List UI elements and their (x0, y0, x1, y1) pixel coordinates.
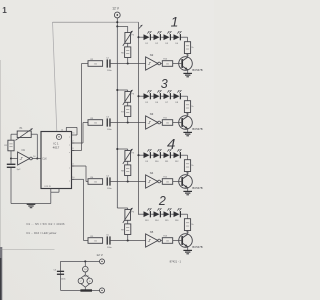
svg-text:o: o (69, 136, 70, 138)
wire resistor to line (127, 235, 129, 241)
svg-text:1: 1 (171, 13, 179, 29)
resistor R17 (184, 219, 193, 231)
potentiometer P1 (15, 128, 32, 140)
node channel numeral 2 (158, 194, 166, 208)
svg-text:D2: D2 (155, 43, 157, 45)
svg-text:1k: 1k (191, 106, 193, 108)
svg-text:D4: D4 (175, 43, 177, 45)
wire IC2 pin 14 branch (84, 261, 86, 266)
svg-text:BC547B: BC547B (192, 127, 202, 131)
wire supply pins to ground (81, 284, 90, 290)
wire RC node to inverter (111, 121, 146, 123)
terminal 0V bottom (100, 288, 105, 293)
svg-text:D11: D11 (165, 161, 168, 163)
svg-text:N1 ... N5 = 5/6 IC2 = 40106: N1 ... N5 = 5/6 IC2 = 40106 (27, 222, 66, 226)
resistor R11 (162, 118, 172, 126)
svg-text:N5: N5 (150, 230, 154, 234)
svg-text:1k: 1k (191, 47, 193, 49)
node IC2 label (84, 275, 89, 278)
svg-text:N4: N4 (150, 171, 154, 175)
svg-text:1: 1 (2, 6, 7, 15)
wire pot bus to pot P5 (117, 208, 127, 210)
svg-text:D10: D10 (155, 161, 158, 163)
wire R1 to N1 input (10, 151, 12, 160)
svg-text:87421 - 1: 87421 - 1 (170, 259, 182, 263)
LED chain D5-D8 (137, 90, 181, 104)
transistor T1 BC547B (173, 55, 193, 70)
ground T2 emitter (183, 129, 192, 136)
svg-text:D9: D9 (145, 161, 147, 163)
wire IC1 output to channel (row 4) (72, 179, 88, 240)
potentiometer P4 (123, 149, 135, 164)
ground oscillator (27, 204, 36, 207)
caption 87421-1 (170, 259, 182, 263)
svg-text:D1: D1 (145, 43, 147, 45)
wire pot bus to pot P3 (116, 89, 127, 92)
wire IC1 bottom pins to ground (51, 189, 59, 204)
svg-text:o: o (69, 144, 70, 146)
svg-text:15: 15 (72, 133, 74, 135)
node +12V top label (112, 7, 120, 11)
IC1 supply pin 16 circle (78, 278, 84, 284)
wire resistor to line (127, 117, 129, 123)
svg-text:D13: D13 (145, 220, 148, 222)
wire collector (187, 231, 189, 234)
wire LED chain to resistor (181, 96, 188, 101)
resistor R12 (162, 177, 172, 185)
svg-text:o: o (69, 167, 70, 169)
note D1-D16 devices (27, 231, 57, 235)
svg-text:o: o (69, 181, 70, 183)
resistor R10 (162, 59, 172, 67)
svg-text:2: 2 (72, 141, 73, 143)
ground supply block (80, 289, 92, 291)
label BC547B (row 1) (192, 68, 202, 72)
svg-text:10k: 10k (166, 182, 169, 184)
wire IC1 output to channel (row 2) (72, 123, 88, 144)
wire N1 output to IC1 CLK (32, 156, 41, 158)
inverter N1 (18, 149, 33, 165)
wire +12V main rail (53, 21, 139, 23)
resistor R8 (121, 165, 131, 176)
wire resistor to line (127, 176, 129, 182)
potentiometer P5 (123, 208, 135, 223)
wire RC node to inverter (111, 62, 146, 64)
wire C1 top (10, 159, 12, 164)
wire P1 right to N1 output (31, 134, 38, 159)
wire resistor to line (127, 58, 129, 64)
label BC547B (row 4) (192, 245, 202, 249)
svg-text:D7: D7 (165, 102, 167, 104)
svg-text:3: 3 (72, 148, 73, 150)
capacitor C2 (106, 58, 112, 72)
note N1-N5 devices (27, 222, 66, 226)
wire collector (187, 172, 189, 175)
svg-text:10k: 10k (166, 241, 169, 243)
svg-text:D14: D14 (155, 220, 158, 222)
inverter N2 (146, 53, 161, 70)
node channel numeral 4 (167, 136, 175, 153)
resistor R14 (184, 42, 193, 54)
svg-text:BC547B: BC547B (192, 186, 202, 190)
svg-text:3: 3 (161, 77, 168, 91)
capacitor C1 (7, 164, 21, 171)
wire RC node to inverter (111, 180, 146, 182)
wire pot to resistor (127, 220, 129, 224)
svg-text:o: o (69, 152, 70, 154)
wire inverter to base resistor (161, 63, 162, 65)
svg-text:D12: D12 (175, 161, 178, 163)
svg-text:15: 15 (61, 130, 63, 132)
svg-text:10k: 10k (94, 241, 97, 243)
ground T1 emitter (183, 70, 192, 77)
svg-text:1k: 1k (191, 165, 193, 167)
capacitor C6 (54, 269, 67, 280)
transistor T2 BC547B (173, 114, 193, 129)
capacitor C3 (106, 117, 112, 131)
capacitor C5 (106, 235, 112, 249)
svg-text:10k: 10k (94, 123, 97, 125)
wire supply top rail (61, 260, 100, 262)
transistor T3 BC547B (173, 173, 193, 188)
wire pot to resistor (127, 161, 129, 165)
IC2 supply pin 7 circle (87, 278, 93, 284)
svg-text:N3: N3 (150, 112, 154, 116)
svg-text:D1 ... D16 = LED yellow: D1 ... D16 = LED yellow (27, 231, 57, 235)
svg-text:2: 2 (158, 194, 166, 208)
label BC547B (row 2) (192, 127, 202, 131)
svg-text:4: 4 (72, 164, 73, 166)
LED chain D13-D16 (139, 208, 182, 222)
terminal +12V top (114, 12, 120, 18)
wire LED anode bus (138, 22, 140, 215)
node 12V bottom label (96, 253, 103, 257)
svg-text:10k: 10k (94, 64, 97, 66)
svg-text:CLK: CLK (42, 158, 47, 160)
wire branch to pot P2 (116, 25, 127, 32)
wire LED chain to resistor (181, 37, 188, 42)
inverter N3 (146, 112, 161, 129)
wire inverter to base resistor (161, 240, 162, 242)
svg-text:12 V: 12 V (112, 7, 120, 11)
resistor R7 (121, 106, 131, 117)
wire pot to resistor (127, 102, 129, 106)
inverter N5 (146, 230, 161, 247)
wire IC1 output to channel (row 1) (72, 64, 88, 151)
transistor T4 BC547B (173, 232, 193, 247)
potentiometer P3 (123, 90, 135, 105)
scan edge artifact bottom-left (0, 247, 2, 300)
wire supply left branch (60, 261, 62, 290)
wire rail to IC1 pin 16 (53, 22, 57, 131)
wire pot to resistor (127, 43, 129, 47)
wire P1 left to R1 (11, 134, 17, 140)
svg-text:8 13 15: 8 13 15 (45, 186, 51, 188)
IC2 supply pin 14 circle (83, 266, 89, 272)
svg-text:D8: D8 (175, 102, 177, 104)
wire inverter to base resistor (161, 181, 162, 183)
op-amp U1 substitute: IC1 4017 counter (41, 132, 74, 189)
resistor R1 (4, 140, 14, 151)
resistor R5 (88, 236, 103, 244)
wire pot bus to pot P4 (116, 148, 127, 151)
wire C1 to ground run (11, 168, 51, 204)
wire IC1 output to channel (row 3) (72, 166, 88, 182)
wire to supply pin pair (81, 272, 90, 278)
ground T3 emitter (183, 188, 192, 195)
svg-text:BC547B: BC547B (192, 245, 202, 249)
wire N1 input (11, 158, 18, 160)
svg-text:BC547B: BC547B (192, 68, 202, 72)
svg-text:4017: 4017 (53, 145, 60, 149)
resistor R2 (88, 59, 103, 67)
svg-text:D15: D15 (165, 220, 168, 222)
resistor R6 (121, 47, 131, 58)
svg-text:1k: 1k (191, 224, 193, 226)
svg-text:10k: 10k (166, 64, 169, 66)
svg-text:D5: D5 (145, 102, 147, 104)
capacitor C4 (106, 176, 112, 190)
svg-text:N2: N2 (150, 53, 154, 57)
resistor R13 (162, 236, 172, 244)
terminal +12V bottom (100, 259, 105, 264)
page number 1 (2, 6, 7, 15)
wire collector (187, 113, 189, 116)
svg-text:12 V: 12 V (96, 253, 103, 257)
resistor R16 (184, 160, 193, 172)
svg-text:D16: D16 (175, 220, 178, 222)
resistor R15 (184, 101, 193, 113)
wire collector (187, 54, 189, 57)
wire supply bottom rail (61, 289, 100, 291)
wire terminal to rail (116, 18, 118, 27)
svg-text:10k: 10k (166, 123, 169, 125)
wire LED chain to resistor (181, 155, 188, 160)
resistor R4 (88, 177, 103, 185)
inverter N4 (146, 171, 161, 188)
potentiometer P2 (123, 31, 135, 46)
wire pot supply bus (116, 26, 118, 208)
svg-text:D6: D6 (155, 102, 157, 104)
resistor R9 (121, 224, 131, 235)
svg-text:10: 10 (72, 177, 74, 179)
ground T4 emitter (183, 247, 192, 254)
resistor R3 (88, 118, 103, 125)
wire RC node to inverter (111, 239, 146, 241)
wire inverter to base resistor (161, 122, 162, 124)
wire reset loop pin to top (61, 127, 77, 135)
node channel numeral 1 (171, 13, 179, 29)
supply arrow at rail corner (139, 25, 143, 29)
svg-text:D3: D3 (165, 43, 167, 45)
node channel numeral 3 (161, 77, 168, 91)
label BC547B (row 3) (192, 186, 202, 190)
LED chain D1-D4 (137, 31, 181, 45)
wire LED chain to resistor (181, 214, 188, 219)
svg-text:10k: 10k (94, 182, 97, 184)
LED chain D9-D12 (137, 149, 181, 163)
